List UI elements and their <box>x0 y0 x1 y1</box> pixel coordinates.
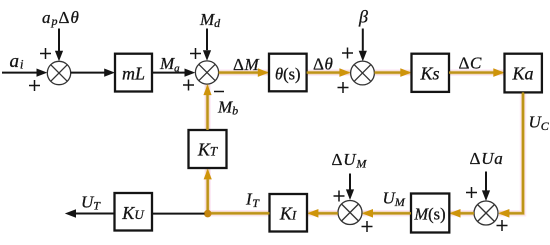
block mL <box>115 54 152 92</box>
wire S4 to M(s) (orange) <box>449 209 474 218</box>
plus sign S2 top <box>190 48 201 59</box>
svg-text:Δθ: Δθ <box>313 55 334 74</box>
svg-text:mL: mL <box>122 64 145 84</box>
summing junction S4 <box>474 201 498 225</box>
plus sign S2 bottom-left <box>183 80 194 91</box>
plus sign S1 top <box>40 48 51 59</box>
wire a_i input <box>2 69 47 77</box>
junction dot <box>204 210 212 218</box>
block theta(s) <box>269 54 307 92</box>
wire junction dot to KU (black) <box>152 213 205 215</box>
block KU <box>115 193 153 231</box>
wire M_d input (vertical) <box>203 29 211 61</box>
minus sign S2 bottom-right <box>214 91 224 93</box>
wire a_p-delta-theta input (vertical) <box>55 29 63 62</box>
svg-text:ΔC: ΔC <box>459 54 483 73</box>
svg-text:Ks: Ks <box>419 64 439 84</box>
pink jpeg glow under orange wires <box>208 73 524 214</box>
plus sign S3 bottom <box>338 82 349 93</box>
block Ka <box>505 54 542 93</box>
svg-text:ΔUa: ΔUa <box>470 149 504 168</box>
svg-text:Ka: Ka <box>511 64 533 84</box>
block KI <box>270 194 308 232</box>
wire mL to S2 <box>152 69 195 77</box>
block KT <box>189 130 227 168</box>
svg-text:θ(s): θ(s) <box>275 65 301 84</box>
svg-text:M(s): M(s) <box>413 205 445 224</box>
wire KU to U_T output (black, arrow left) <box>65 209 115 217</box>
wire Ka down and left into S4 (orange) <box>498 92 523 217</box>
gold blur halo under orange wires <box>208 73 524 214</box>
block M(s) <box>411 194 449 233</box>
wire KI to junction dot (orange) <box>208 212 270 214</box>
summing junction S5 <box>338 201 362 225</box>
summing junction S1 <box>47 61 70 84</box>
plus sign S5 bottom-right <box>362 221 373 232</box>
block Ks <box>412 54 450 92</box>
svg-text:β: β <box>358 7 368 27</box>
plus sign S4 top-left <box>466 187 477 198</box>
wire beta input (vertical) <box>359 29 367 62</box>
summing junction S2 <box>195 61 218 84</box>
plus sign S4 bottom-right <box>497 220 508 231</box>
summing junction S3 <box>351 61 375 85</box>
plus sign S1 bottom <box>29 80 40 91</box>
wire S5 to KI (orange) <box>307 209 338 218</box>
wire S3 to Ks (orange) <box>374 68 411 77</box>
wire delta-Ua input (vertical) <box>482 172 490 202</box>
wire theta(s) to S3 (orange) <box>307 68 351 77</box>
wire Ks to Ka (orange) <box>449 68 505 77</box>
wire KT up to S2 (orange) <box>203 84 211 130</box>
plus sign S3 top <box>342 48 353 59</box>
wire junction dot up to KT (orange) <box>204 169 212 210</box>
svg-text:ΔM: ΔM <box>233 55 260 74</box>
wire S2 to theta(s) (orange) <box>219 68 269 77</box>
wire S1 to mL <box>71 69 115 77</box>
wire delta-U_M input (vertical) <box>346 174 354 201</box>
plus sign S5 top-left <box>334 191 345 202</box>
svg-text:apΔθ: apΔθ <box>42 8 80 28</box>
wire M(s) to S5 (orange) <box>362 209 411 218</box>
